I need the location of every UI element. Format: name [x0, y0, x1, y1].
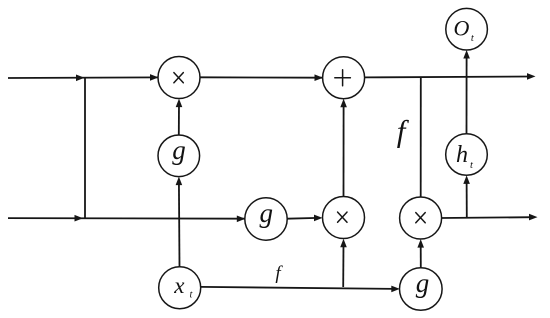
- symbol: multiply sign in M3: [416, 213, 425, 223]
- arrowhead: into multiply M1 bottom: [176, 99, 183, 108]
- node: gate g2 circle: [245, 198, 287, 240]
- arrowhead: top line right tip: [527, 73, 536, 80]
- svg-text:g: g: [260, 198, 274, 228]
- arrowhead: middle line mid: [75, 215, 84, 222]
- node: gate g3 circle: [400, 268, 443, 311]
- arrowhead: into g3 left: [391, 286, 400, 293]
- svg-text:h: h: [456, 142, 468, 168]
- wire: g2 to multiply M2: [287, 217, 318, 220]
- svg-text:x: x: [173, 273, 185, 298]
- svg-text:f: f: [397, 114, 410, 149]
- wire: x_t vertical up to g1: [178, 181, 181, 267]
- wire: multiply M3 to right output: [442, 216, 533, 219]
- svg-text:g: g: [172, 135, 186, 165]
- wire: top line left segment (input c_{t-1}): [8, 76, 158, 79]
- wire: multiply M2 up to adder U1: [343, 103, 345, 197]
- node: multiply M3 circle: [400, 197, 442, 239]
- svg-text:g: g: [416, 268, 430, 298]
- arrowhead: middle line right tip: [529, 214, 538, 221]
- arrowhead: top line mid: [76, 75, 85, 82]
- arrowhead: into multiply M2 bottom: [340, 239, 347, 248]
- arrowhead: into adder U1 bottom: [340, 99, 347, 108]
- arrowhead: into g1 bottom: [176, 177, 183, 186]
- node: hidden h_t circle: [446, 134, 488, 176]
- wire: middle line to h_t vertical: [466, 179, 468, 218]
- arrowhead: into multiply M2 left: [314, 215, 323, 222]
- wire: top line right output segment: [365, 76, 531, 79]
- svg-text:O: O: [454, 16, 470, 41]
- node: multiply M1 circle: [158, 57, 200, 99]
- arrowhead: into h_t bottom: [463, 175, 470, 184]
- wire: top line, multiply M1 to adder U1: [200, 76, 322, 78]
- symbol: multiply sign in M2: [338, 212, 347, 222]
- node: adder U1 circle: [323, 57, 365, 99]
- symbol: plus sign in U1: [335, 70, 351, 86]
- arrowhead: into O_t bottom: [463, 50, 470, 59]
- node: multiply M2 circle: [323, 197, 365, 239]
- node: input x_t circle: [159, 267, 201, 309]
- wire: bottom line x_t to g3: [201, 287, 396, 289]
- svg-text:f: f: [275, 263, 283, 284]
- wire: h_t to O_t vertical: [466, 54, 468, 134]
- arrowhead: into adder U1 left: [315, 74, 324, 81]
- arrowhead: into multiply M1 left: [150, 74, 159, 81]
- wire: f vertical drop to multiply M3: [420, 77, 422, 198]
- wire: left vertical connector: [84, 78, 86, 218]
- node: output O_t circle: [446, 8, 488, 50]
- symbol: multiply sign in M1: [174, 73, 183, 83]
- wire: g1 up to multiply M1: [178, 103, 180, 136]
- arrowhead: into multiply M3 bottom: [417, 239, 424, 248]
- wire: bottom vertical up to multiply M2: [342, 243, 344, 287]
- arrowhead: into g2 left: [237, 216, 246, 223]
- wire: g3 up to multiply M3: [420, 243, 422, 268]
- node: gate g1 circle: [158, 135, 200, 177]
- wire: middle line left segment (input h_{t-1}): [8, 217, 245, 220]
